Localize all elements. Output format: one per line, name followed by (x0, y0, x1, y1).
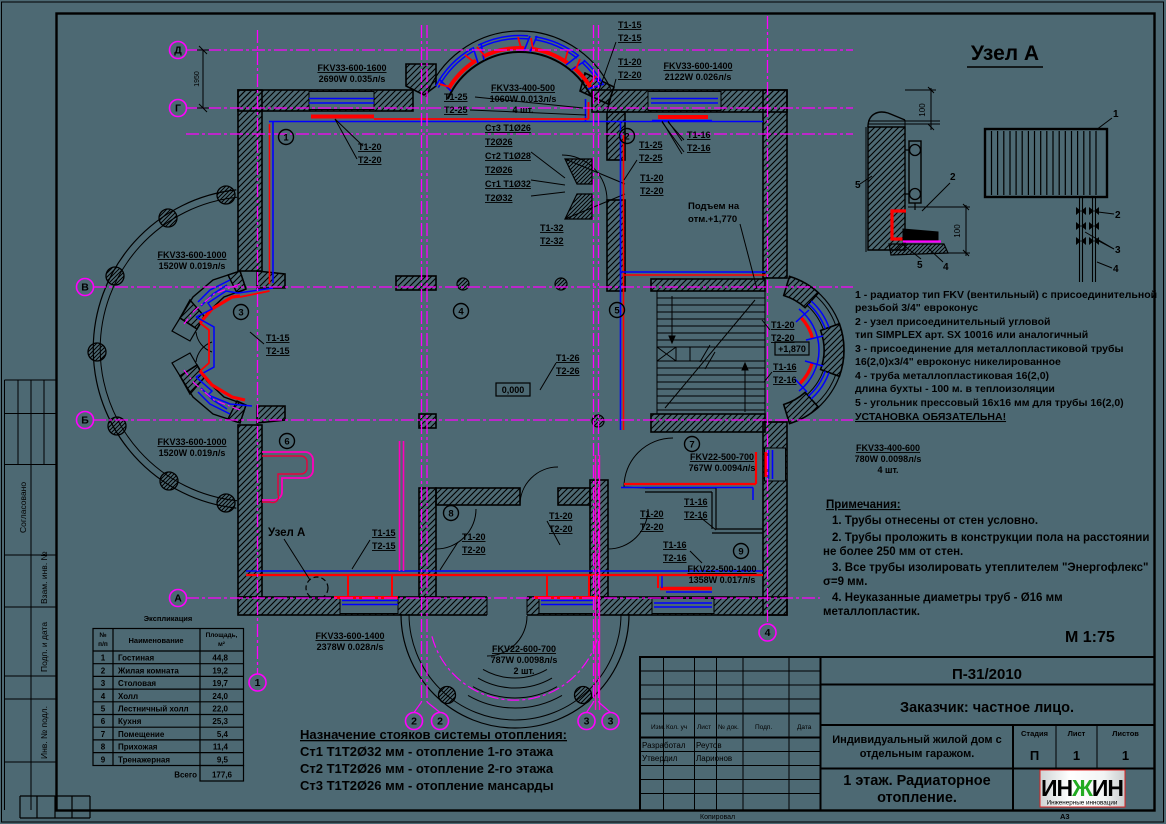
radiator window blue bars top-left (309, 99, 374, 104)
left bay upper band hatched ends (228, 271, 246, 293)
svg-text:FKV33-600-1400: FKV33-600-1400 (663, 61, 732, 71)
svg-text:9: 9 (738, 546, 743, 557)
svg-text:1 этаж. Радиаторное: 1 этаж. Радиаторное (843, 773, 990, 789)
room7 pipes (624, 452, 756, 484)
svg-text:не более 250 мм от стен.: не более 250 мм от стен. (823, 546, 963, 558)
svg-text:Т2-26: Т2-26 (556, 366, 580, 376)
svg-text:FKV33-400-600: FKV33-400-600 (856, 443, 920, 453)
left bay lower end cap (172, 353, 197, 376)
svg-text:7: 7 (689, 439, 694, 450)
left bay lower radiator red (200, 371, 245, 400)
svg-text:М 1:75: М 1:75 (1065, 629, 1115, 646)
svg-text:4: 4 (1113, 264, 1119, 275)
svg-text:2122W 0.026л/s: 2122W 0.026л/s (665, 72, 732, 82)
svg-text:16(2,0)х3/4" евроконус никелир: 16(2,0)х3/4" евроконус никелированное (855, 356, 1061, 368)
svg-text:Площадь,: Площадь, (206, 632, 238, 639)
svg-text:Т2-15: Т2-15 (266, 346, 290, 356)
door arc top centre (562, 155, 607, 200)
axis A horizontal (186, 597, 820, 599)
svg-text:резьбой 3/4" евроконус: резьбой 3/4" евроконус (855, 302, 978, 314)
svg-text:4. Неуказанные диаметры труб -: 4. Неуказанные диаметры труб - Ø16 мм (832, 592, 1063, 604)
radiator window blue bars top-right (651, 99, 718, 104)
svg-text:Т2-16: Т2-16 (773, 375, 797, 385)
svg-text:Заказчик: частное лицо.: Заказчик: частное лицо. (900, 700, 1074, 716)
svg-text:1: 1 (101, 654, 106, 663)
svg-text:Т1-25: Т1-25 (639, 140, 663, 150)
svg-text:Т1-32: Т1-32 (540, 223, 564, 233)
svg-text:Т1-15: Т1-15 (372, 528, 396, 538)
svg-text:отдельным гаражом.: отдельным гаражом. (860, 748, 975, 760)
svg-text:FKV33-600-1400: FKV33-600-1400 (315, 631, 384, 641)
svg-text:Утвердил: Утвердил (642, 754, 678, 763)
svg-text:767W 0.0094л/s: 767W 0.0094л/s (689, 463, 756, 473)
left bay lower glazing blue (198, 388, 230, 414)
svg-text:Т2-16: Т2-16 (684, 510, 708, 520)
svg-text:Взам. инв. №: Взам. инв. № (39, 551, 49, 604)
svg-text:Ст3 Т1Т2Ø26 мм - отопление ман: Ст3 Т1Т2Ø26 мм - отопление мансарды (300, 778, 554, 793)
right wall window (765, 448, 786, 481)
svg-text:металлопластик.: металлопластик. (823, 606, 920, 618)
left bay lower radiator blue (196, 377, 252, 406)
detail dims (860, 87, 970, 262)
red pipe left vertical (269, 124, 271, 284)
axis circles (170, 42, 187, 59)
svg-text:8: 8 (448, 508, 453, 519)
svg-text:Т2-20: Т2-20 (640, 522, 664, 532)
svg-text:4: 4 (458, 306, 464, 317)
svg-text:FKV33-400-500: FKV33-400-500 (491, 83, 555, 93)
svg-text:100: 100 (953, 224, 962, 238)
svg-text:Т1-20: Т1-20 (549, 511, 573, 521)
left bay upper corner step (257, 271, 285, 288)
svg-text:Ст1 Т1Т2Ø32 мм - отопление 1-г: Ст1 Т1Т2Ø32 мм - отопление 1-го этажа (300, 744, 554, 759)
svg-text:11,4: 11,4 (213, 743, 229, 752)
svg-text:3: 3 (584, 716, 590, 728)
svg-text:4 шт.: 4 шт. (877, 465, 898, 475)
svg-text:П: П (1030, 748, 1039, 763)
svg-text:Назначение стояков системы ото: Назначение стояков системы отопления: (300, 727, 567, 742)
svg-text:м²: м² (218, 641, 226, 648)
svg-text:Прихожая: Прихожая (118, 743, 158, 752)
terrace posts (217, 186, 235, 204)
svg-text:Согласовано: Согласовано (18, 482, 28, 533)
bottom door opening (487, 596, 527, 616)
svg-text:Экспликация: Экспликация (144, 614, 193, 623)
axis V horizontal (93, 286, 853, 288)
svg-text:Т1-16: Т1-16 (663, 540, 687, 550)
wall left vertical (238, 90, 262, 271)
left bay lower window magenta (184, 370, 240, 410)
svg-text:2: 2 (950, 172, 956, 183)
svg-text:ИНЖИН: ИНЖИН (1041, 775, 1123, 801)
detail radiator front view (985, 129, 1107, 197)
svg-text:Наименование: Наименование (128, 636, 183, 645)
axis D horizontal (186, 49, 853, 51)
svg-text:отопление.: отопление. (877, 790, 957, 806)
window top-left (309, 92, 374, 110)
svg-text:Т1-15: Т1-15 (618, 20, 642, 30)
svg-text:Узел А: Узел А (971, 42, 1039, 65)
svg-text:1 - радиатор тип FKV (вентильн: 1 - радиатор тип FKV (вентильный) с прис… (855, 289, 1157, 301)
interior wall horizontal y488 (436, 488, 520, 505)
svg-text:Т2-15: Т2-15 (372, 541, 396, 551)
detail radiator section (909, 141, 921, 203)
svg-text:1520W 0.019л/s: 1520W 0.019л/s (159, 448, 226, 458)
door arcs interior (520, 467, 558, 505)
svg-text:А: А (174, 593, 182, 605)
svg-text:УСТАНОВКА ОБЯЗАТЕЛЬНА!: УСТАНОВКА ОБЯЗАТЕЛЬНА! (855, 411, 1006, 423)
right bay glazing blue arcs (809, 304, 826, 329)
svg-text:2: 2 (411, 716, 417, 728)
svg-text:Столовая: Столовая (118, 679, 156, 688)
veranda posts (439, 687, 456, 704)
svg-text:1358W 0.017л/s: 1358W 0.017л/s (689, 575, 756, 585)
svg-text:Т1-26: Т1-26 (556, 353, 580, 363)
black room number circles (279, 130, 294, 145)
wall bottom band (238, 597, 787, 615)
arc bay right pier (580, 73, 614, 104)
detail wall (868, 127, 905, 250)
svg-text:5: 5 (614, 305, 620, 316)
svg-text:Б: Б (81, 415, 89, 427)
blue pipe left vertical (272, 122, 274, 284)
svg-text:Подп. и дата: Подп. и дата (39, 622, 49, 672)
interior wall vertical x419 lower (419, 488, 436, 597)
axis G horizontal (186, 107, 853, 109)
red drops to bottom radiators (348, 575, 589, 599)
svg-text:Т2-15: Т2-15 (618, 33, 642, 43)
svg-text:4: 4 (943, 262, 949, 273)
svg-text:3. Все трубы изолировать утепл: 3. Все трубы изолировать утеплителем "Эн… (832, 562, 1148, 574)
interior wall vertical centre-top (607, 112, 625, 160)
svg-text:Т2Ø26: Т2Ø26 (485, 165, 513, 175)
window top-right (648, 92, 721, 111)
left bay upper radiator blue (196, 288, 273, 317)
top arc bay inner arc (448, 52, 591, 99)
bottom window blue bars (342, 601, 594, 605)
wall top-right band (592, 90, 787, 112)
svg-text:9,5: 9,5 (217, 755, 229, 764)
svg-text:Г: Г (175, 103, 181, 115)
svg-text:Т1-25: Т1-25 (444, 92, 468, 102)
svg-text:0,000: 0,000 (502, 385, 525, 395)
bottom main pipes (246, 570, 763, 572)
svg-text:Т2-20: Т2-20 (358, 155, 382, 165)
svg-text:1060W 0.013л/s: 1060W 0.013л/s (490, 94, 557, 104)
svg-text:19,7: 19,7 (212, 679, 228, 688)
svg-text:Индивидуальный жилой дом с: Индивидуальный жилой дом с (832, 734, 1001, 746)
svg-text:Т1-20: Т1-20 (358, 142, 382, 152)
pier on axis B2 (419, 414, 436, 428)
svg-text:1: 1 (255, 677, 261, 689)
svg-text:Т2-32: Т2-32 (540, 236, 564, 246)
svg-text:Кол. уч: Кол. уч (666, 724, 687, 731)
svg-text:Лестничный холл: Лестничный холл (118, 705, 189, 714)
svg-text:Т1-16: Т1-16 (684, 497, 708, 507)
svg-text:Лист: Лист (697, 724, 711, 731)
svg-text:780W 0.0098л/s: 780W 0.0098л/s (855, 454, 922, 464)
bottom window 3 (room 9) (652, 599, 714, 614)
wall right vertical upper (763, 90, 787, 278)
svg-text:Т2-20: Т2-20 (618, 70, 642, 80)
level box 0,000 (496, 383, 530, 396)
left bay upper end cap (172, 318, 197, 341)
svg-text:В: В (81, 282, 89, 294)
svg-text:Т2-25: Т2-25 (639, 153, 663, 163)
svg-text:5: 5 (917, 260, 923, 271)
svg-text:Ларионов: Ларионов (696, 754, 732, 763)
axis 4 vertical (767, 16, 769, 622)
svg-text:Инженерные инновации: Инженерные инновации (1047, 800, 1118, 807)
svg-text:FKV33-600-1000: FKV33-600-1000 (157, 437, 226, 447)
svg-text:3: 3 (238, 307, 243, 318)
svg-text:5 - угольник прессовый 16х16 м: 5 - угольник прессовый 16х16 мм для труб… (855, 397, 1124, 409)
svg-text:2: 2 (101, 666, 106, 675)
svg-text:22,0: 22,0 (212, 705, 228, 714)
kitchen pink loop (262, 452, 313, 500)
axis 3 vertical pair (594, 25, 599, 702)
svg-text:9: 9 (101, 755, 106, 764)
svg-text:44,8: 44,8 (212, 654, 228, 663)
svg-text:3 - присоединение для металлоп: 3 - присоединение для металлопластиковой… (855, 343, 1123, 355)
wall right vertical lower (763, 422, 787, 615)
svg-text:FKV33-600-1600: FKV33-600-1600 (317, 63, 386, 73)
svg-text:Т1-16: Т1-16 (687, 130, 711, 140)
svg-text:длина бухты - 100 м. в теплоиз: длина бухты - 100 м. в теплоизоляции (855, 383, 1055, 395)
left gost strip table (5, 380, 57, 810)
svg-text:Лист: Лист (1068, 729, 1086, 738)
svg-text:24,0: 24,0 (212, 692, 228, 701)
svg-text:8: 8 (101, 743, 106, 752)
riser block wedges (565, 159, 592, 184)
svg-text:2: 2 (624, 131, 629, 142)
detail floor hatch (889, 244, 948, 255)
svg-text:Копировал: Копировал (700, 814, 735, 821)
columns (457, 278, 469, 290)
svg-text:FKV22-500-700: FKV22-500-700 (690, 452, 754, 462)
stair arrows (672, 296, 745, 412)
stair wall top (651, 279, 765, 291)
svg-text:Дата: Дата (797, 724, 812, 731)
svg-text:1: 1 (1122, 748, 1129, 763)
svg-text:+1,870: +1,870 (778, 344, 806, 354)
svg-text:1: 1 (283, 132, 289, 143)
left bay upper radiator red (200, 296, 240, 323)
svg-text:2: 2 (1115, 210, 1121, 221)
top arc blue connectors (439, 36, 604, 91)
svg-text:Реутов: Реутов (696, 741, 722, 750)
right bay radiators (801, 317, 813, 338)
svg-text:5: 5 (101, 705, 106, 714)
svg-text:Стадия: Стадия (1021, 729, 1048, 738)
left bay door arcs (196, 332, 212, 362)
svg-text:Т2-20: Т2-20 (549, 524, 573, 534)
svg-text:19,2: 19,2 (212, 666, 228, 675)
svg-text:5: 5 (855, 180, 861, 191)
svg-text:3: 3 (101, 679, 106, 688)
svg-text:Примечания:: Примечания: (826, 499, 901, 511)
svg-text:2 шт.: 2 шт. (513, 666, 534, 676)
svg-text:Т2-20: Т2-20 (640, 186, 664, 196)
svg-text:Подъем на: Подъем на (688, 201, 740, 212)
left bay upper glazing blue (198, 280, 230, 306)
arc bay left step (406, 64, 436, 95)
svg-text:2690W 0.035л/s: 2690W 0.035л/s (319, 74, 386, 84)
svg-text:Ст2 Т1Ø28: Ст2 Т1Ø28 (485, 151, 531, 161)
top arc bay outer arc (426, 31, 611, 97)
uzel A riser pink pair (400, 441, 404, 571)
svg-text:4 - труба металлопластиковая 1: 4 - труба металлопластиковая 16(2,0) (855, 370, 1049, 382)
axis 1 vertical (257, 30, 259, 674)
svg-text:Т1-20: Т1-20 (640, 509, 664, 519)
svg-text:100: 100 (918, 103, 927, 117)
svg-text:Т2-16: Т2-16 (663, 553, 687, 563)
left bay upper window magenta (184, 284, 240, 324)
svg-text:Кухня: Кухня (118, 717, 142, 726)
top arc blue window arc (438, 51, 474, 88)
riser pair centre vertical (620, 122, 622, 431)
svg-text:Т1-20: Т1-20 (618, 57, 642, 67)
svg-text:№: № (99, 632, 106, 639)
stair landing cross box (657, 347, 765, 361)
detail red elbow (892, 211, 906, 239)
left bay lower wall band outline (180, 365, 246, 423)
svg-text:2378W 0.028л/s: 2378W 0.028л/s (317, 642, 384, 652)
svg-text:Т1-20: Т1-20 (462, 532, 486, 542)
door arc bottom bay (487, 616, 527, 656)
svg-text:Листов: Листов (1112, 729, 1139, 738)
wall top-left top band (238, 90, 413, 111)
svg-text:Т1-16: Т1-16 (773, 362, 797, 372)
left bay mid pipes (200, 323, 209, 371)
svg-text:Д: Д (174, 45, 182, 57)
svg-text:Т2Ø26: Т2Ø26 (485, 137, 513, 147)
svg-text:Изм.: Изм. (651, 724, 665, 731)
veranda steps (483, 669, 547, 678)
svg-text:1: 1 (1113, 109, 1119, 120)
axis B horizontal (93, 419, 853, 421)
top arc radiator red segments (448, 61, 476, 90)
svg-text:6: 6 (101, 717, 106, 726)
radiator bar top-left red (311, 115, 374, 119)
level box +1,870 (775, 342, 809, 355)
svg-text:6: 6 (284, 436, 289, 447)
svg-text:FKV22-500-1400: FKV22-500-1400 (687, 564, 756, 574)
uzel A marker circle (306, 577, 328, 599)
svg-text:1950: 1950 (194, 71, 201, 87)
svg-text:Холл: Холл (118, 692, 138, 701)
right wall radiator (769, 450, 773, 479)
svg-text:2 - узел присоединительный угл: 2 - узел присоединительный угловой (855, 316, 1050, 328)
svg-text:3: 3 (608, 716, 614, 728)
svg-text:σ=9 мм.: σ=9 мм. (823, 576, 867, 588)
black leader lines (250, 42, 684, 570)
svg-text:Гостиная: Гостиная (118, 654, 154, 663)
svg-text:Т2-25: Т2-25 (444, 105, 468, 115)
stair wall bottom (651, 414, 765, 432)
svg-text:4: 4 (765, 627, 771, 639)
svg-text:2: 2 (437, 716, 443, 728)
left bay lower corner step (257, 406, 285, 423)
arc bay pipe drop (585, 99, 587, 122)
svg-text:Разработал: Разработал (642, 741, 686, 750)
svg-text:П-31/2010: П-31/2010 (952, 666, 1022, 683)
left bay upper wall band outline (180, 271, 246, 329)
svg-text:тип SIMPLEX арт. SX 10016 или: тип SIMPLEX арт. SX 10016 или аналогичны… (855, 329, 1088, 341)
axis extra horizontal y134 (186, 133, 853, 135)
svg-text:Т1-15: Т1-15 (266, 333, 290, 343)
logo ИНЖИН (1040, 770, 1125, 807)
right bay window arcs (816, 296, 836, 325)
staircase (657, 291, 765, 414)
left strip rotated labels (18, 482, 49, 759)
left bay lower band hatched ends (228, 401, 246, 423)
terrace outer circle (93, 190, 236, 508)
stair break line (665, 300, 755, 408)
axis 2 vertical pair (422, 25, 428, 702)
veranda arcs bottom (401, 614, 629, 728)
svg-text:Подп.: Подп. (755, 724, 772, 731)
svg-text:177,6: 177,6 (212, 771, 233, 780)
right bay wall arcs (784, 276, 819, 307)
svg-text:Жилая комната: Жилая комната (117, 666, 179, 675)
radiator bar top-right red (658, 115, 708, 119)
bottom windows (340, 599, 398, 614)
svg-text:Т2Ø32: Т2Ø32 (485, 193, 513, 203)
svg-text:FKV33-600-1000: FKV33-600-1000 (157, 250, 226, 260)
svg-text:25,3: 25,3 (212, 717, 228, 726)
detail magenta pipe (903, 240, 941, 242)
dimension D-G (197, 46, 209, 112)
svg-text:№ док.: № док. (718, 724, 739, 731)
svg-text:7: 7 (101, 730, 106, 739)
axis circle leaders (414, 702, 611, 713)
bottom-left corner marks (20, 796, 90, 818)
svg-text:FKV22-600-700: FKV22-600-700 (492, 644, 556, 654)
pier on axis B (396-436) (396, 276, 436, 290)
svg-text:Ст1 Т1Ø32: Ст1 Т1Ø32 (485, 179, 531, 189)
svg-text:1. Трубы отнесены от стен усло: 1. Трубы отнесены от стен условно. (832, 515, 1038, 527)
numbered notes upper right (855, 289, 1157, 423)
magenta solid risers in bay (596, 455, 600, 710)
interior wall vertical x590 lower (590, 480, 608, 597)
svg-text:Ст2 Т1Т2Ø26 мм - отопление 2-г: Ст2 Т1Т2Ø26 мм - отопление 2-го этажа (300, 761, 554, 776)
svg-text:А3: А3 (1060, 812, 1070, 821)
svg-text:Помещение: Помещение (118, 730, 165, 739)
svg-text:2. Трубы проложить в конструкц: 2. Трубы проложить в конструкции пола на… (832, 532, 1149, 544)
svg-text:4 шт.: 4 шт. (512, 105, 533, 115)
svg-text:1520W 0.019л/s: 1520W 0.019л/s (159, 261, 226, 271)
svg-text:Т1-20: Т1-20 (640, 173, 664, 183)
svg-text:Т1-20: Т1-20 (771, 320, 795, 330)
svg-text:Всего: Всего (174, 771, 197, 780)
svg-text:Т2-16: Т2-16 (687, 143, 711, 153)
svg-text:5,4: 5,4 (217, 730, 229, 739)
svg-text:787W 0.0098л/s: 787W 0.0098л/s (491, 655, 558, 665)
detail black pipe wedge (903, 229, 938, 240)
svg-text:3: 3 (1115, 245, 1121, 256)
svg-text:1: 1 (1073, 748, 1080, 763)
extra leaders bottom rooms (547, 121, 772, 563)
svg-text:п/п: п/п (98, 641, 108, 648)
svg-text:Тренажерная: Тренажерная (118, 755, 170, 764)
pipes above stairs (621, 271, 767, 273)
main blue pipe top horizontal (269, 121, 763, 123)
svg-text:Инв. № подл.: Инв. № подл. (39, 706, 49, 759)
svg-text:Ст3 Т1Ø26: Ст3 Т1Ø26 (485, 123, 531, 133)
svg-text:отм.+1,770: отм.+1,770 (688, 214, 737, 225)
detail pipes below radiator (1080, 197, 1096, 282)
